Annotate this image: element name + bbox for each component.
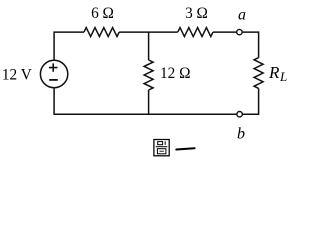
svg-text:b: b — [237, 125, 245, 142]
svg-text:6 Ω: 6 Ω — [91, 5, 114, 22]
svg-text:3 Ω: 3 Ω — [185, 5, 208, 22]
wire from terminal a to top-right corner down to RL — [242, 32, 259, 58]
resistor 3 ohm (zigzag) — [178, 28, 213, 37]
caption figure one: character TU (outer box) — [154, 140, 169, 156]
svg-text:12 Ω: 12 Ω — [160, 65, 191, 82]
wire 12 ohm branch stub from top wire — [148, 32, 150, 60]
wire from RL down to bottom-right corner toward terminal b — [242, 88, 258, 114]
resistor 12 ohm (vertical zigzag) — [144, 60, 153, 90]
svg-text:L: L — [279, 69, 287, 84]
wire top middle segment — [119, 31, 178, 33]
wire left branch: top-left corner from source to 6-ohm resistor — [54, 32, 84, 60]
voltage source V1 circle — [40, 60, 67, 87]
wire bottom segment from terminal b to source — [54, 88, 237, 114]
voltage source plus sign — [49, 63, 58, 71]
terminal node b (open circle) — [237, 112, 242, 117]
wire from 3 ohm to terminal a — [213, 31, 237, 33]
wire 12 ohm branch stub to bottom wire — [148, 90, 150, 114]
terminal node a (open circle) — [237, 29, 242, 34]
voltage source minus sign — [49, 79, 58, 81]
caption figure one: character YI (horizontal stroke) — [176, 148, 194, 149]
svg-text:a: a — [238, 7, 246, 24]
resistor 6 ohm (zigzag) — [84, 28, 119, 37]
svg-text:R: R — [268, 63, 280, 82]
svg-text:12 V: 12 V — [2, 66, 32, 83]
resistor RL (vertical zigzag) — [254, 58, 263, 89]
